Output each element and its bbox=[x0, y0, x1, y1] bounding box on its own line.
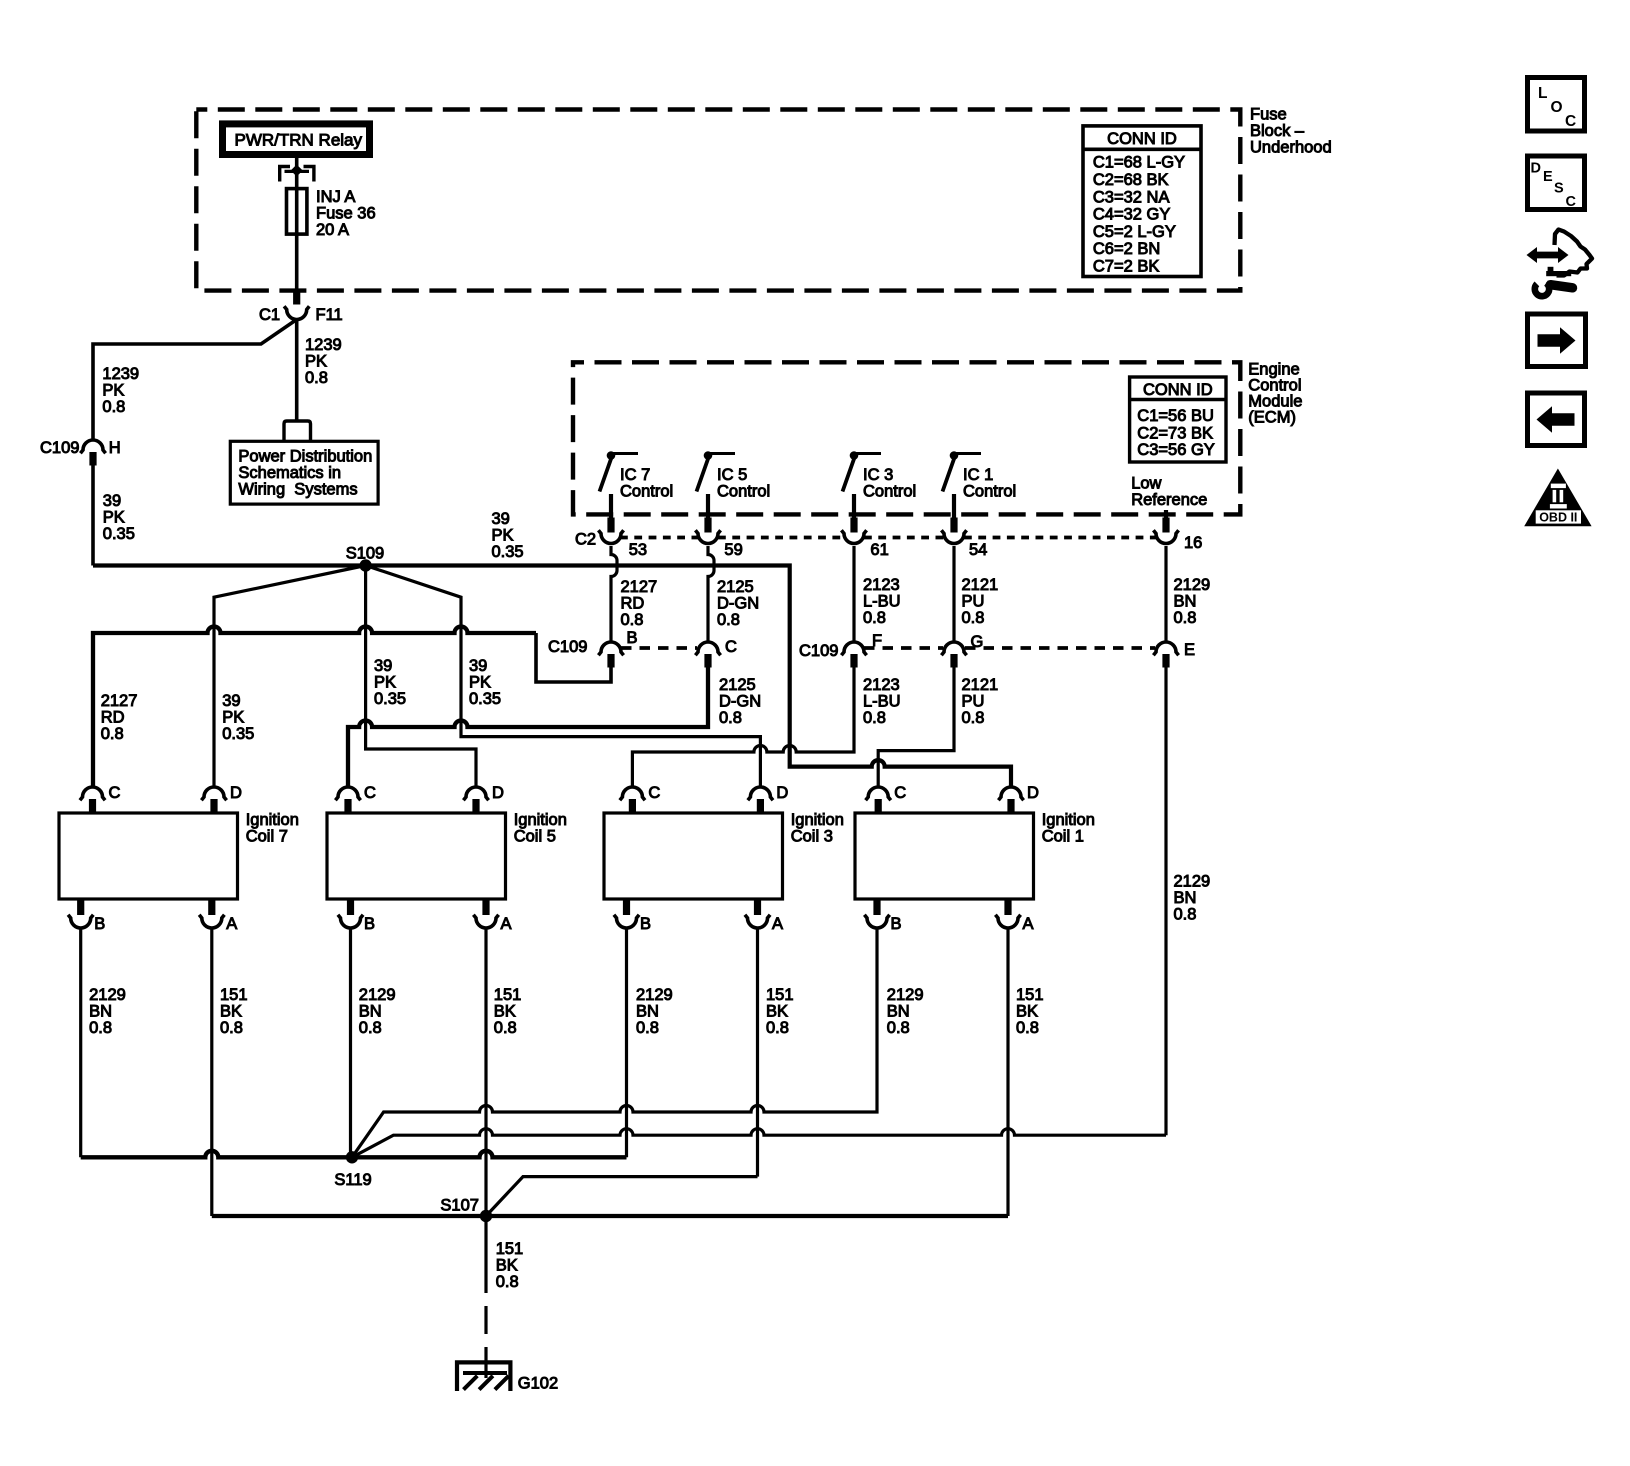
svg-text:0.8: 0.8 bbox=[494, 1019, 517, 1037]
coil 1 pin B bar bbox=[873, 899, 880, 915]
svg-text:C1=56 BU: C1=56 BU bbox=[1137, 407, 1214, 425]
svg-text:D: D bbox=[776, 784, 788, 802]
svg-text:C: C bbox=[1565, 113, 1576, 130]
svg-text:B: B bbox=[94, 915, 105, 933]
connector C2 pin 53 bar bbox=[607, 518, 614, 533]
off-page bracket bbox=[284, 421, 311, 441]
svg-text:0.8: 0.8 bbox=[496, 1273, 519, 1291]
fuse holder bar bbox=[285, 170, 310, 173]
svg-text:C2=68 BK: C2=68 BK bbox=[1093, 171, 1169, 189]
connector C109 cavity F bbox=[841, 642, 866, 655]
svg-text:D: D bbox=[492, 784, 504, 802]
svg-text:151: 151 bbox=[1016, 986, 1044, 1004]
svg-text:0.8: 0.8 bbox=[1174, 906, 1197, 924]
coil 7 pin C bar bbox=[89, 799, 96, 813]
wire 2129 BN coil3 B down bbox=[625, 928, 628, 1158]
coil 5 pin C bar bbox=[344, 799, 351, 813]
svg-text:2129: 2129 bbox=[887, 986, 924, 1004]
coil 3 pin C connector bbox=[620, 787, 645, 800]
coil 7 pin A connector bbox=[199, 915, 224, 928]
connector C2 pin 59 bar bbox=[704, 518, 711, 533]
wire low reference stub bbox=[1164, 510, 1168, 518]
svg-text:Power Distribution: Power Distribution bbox=[238, 448, 372, 466]
wire 151 BK S107 to ground solid bbox=[484, 1222, 487, 1293]
svg-text:H: H bbox=[109, 439, 121, 457]
icon DESC box bbox=[1528, 156, 1585, 210]
svg-text:C4=32 GY: C4=32 GY bbox=[1093, 206, 1171, 224]
wire 151 BK to ground symbol bbox=[484, 1347, 487, 1378]
svg-text:Ignition: Ignition bbox=[514, 811, 567, 829]
connector C109 pin E bar bbox=[1162, 654, 1169, 668]
svg-text:IC 1: IC 1 bbox=[963, 466, 993, 484]
svg-text:Ignition: Ignition bbox=[791, 811, 844, 829]
svg-text:2127: 2127 bbox=[101, 692, 138, 710]
connector C109 pin H bar bbox=[89, 452, 96, 466]
wire 2123 L-BU run to coil3 C bbox=[632, 668, 854, 789]
icon LOC box bbox=[1528, 78, 1585, 132]
svg-text:0.8: 0.8 bbox=[101, 725, 124, 743]
svg-text:E: E bbox=[1184, 641, 1195, 659]
wire 151 BK coil5 A down to S107 bbox=[484, 928, 487, 1217]
wire 39 PK main bus to coil1 D bbox=[93, 566, 1011, 789]
coil 5 pin A connector bbox=[473, 915, 498, 928]
coil 1 pin D bar bbox=[1007, 799, 1014, 813]
svg-text:BK: BK bbox=[494, 1003, 516, 1021]
wire 2123 L-BU pin 61 to C109 F bbox=[852, 546, 855, 643]
svg-text:CONN ID: CONN ID bbox=[1143, 381, 1213, 399]
svg-text:A: A bbox=[772, 915, 783, 933]
svg-text:C: C bbox=[894, 784, 906, 802]
coil 3 pin A bar bbox=[754, 899, 761, 915]
connector C2 cavity pin 61 bbox=[841, 530, 866, 543]
wire 151 BK coil1 A down bbox=[1006, 928, 1009, 1217]
svg-text:BN: BN bbox=[1174, 889, 1197, 907]
svg-text:C: C bbox=[1566, 194, 1577, 210]
connector C2 pin 54 bar bbox=[950, 518, 957, 533]
svg-text:D-GN: D-GN bbox=[719, 693, 761, 711]
svg-text:OBD II: OBD II bbox=[1539, 511, 1577, 525]
svg-text:0.8: 0.8 bbox=[863, 709, 886, 727]
connector C109 pin G bar bbox=[950, 654, 957, 668]
power distribution box bbox=[230, 441, 378, 504]
svg-text:G102: G102 bbox=[518, 1375, 558, 1393]
svg-text:0.8: 0.8 bbox=[717, 611, 740, 629]
svg-text:0.8: 0.8 bbox=[766, 1019, 789, 1037]
svg-text:2125: 2125 bbox=[719, 676, 756, 694]
svg-text:2129: 2129 bbox=[359, 986, 396, 1004]
wire 2125 D-GN run to coil5 C bbox=[348, 668, 708, 789]
svg-text:INJ A: INJ A bbox=[316, 188, 355, 206]
svg-text:Ignition: Ignition bbox=[1042, 811, 1095, 829]
coil 1 pin A bar bbox=[1004, 899, 1011, 915]
coil 5 pin B bar bbox=[347, 899, 354, 915]
coil 1 pin D connector bbox=[998, 787, 1023, 800]
wire 2127 RD below C109 B jog bbox=[536, 633, 611, 682]
svg-text:0.8: 0.8 bbox=[359, 1019, 382, 1037]
svg-text:2129: 2129 bbox=[1174, 576, 1211, 594]
svg-text:IC 5: IC 5 bbox=[717, 466, 747, 484]
svg-text:C: C bbox=[648, 784, 660, 802]
svg-text:2123: 2123 bbox=[863, 576, 900, 594]
driver switch IC 5 Control bbox=[708, 452, 735, 455]
wire 1239 PK to C109 H bbox=[93, 321, 295, 441]
svg-text:C7=2 BK: C7=2 BK bbox=[1093, 258, 1160, 276]
svg-text:Fuse 36: Fuse 36 bbox=[316, 205, 376, 223]
coil 7 pin A bar bbox=[208, 899, 215, 915]
svg-text:Fuse: Fuse bbox=[1250, 106, 1287, 124]
svg-text:Coil 3: Coil 3 bbox=[791, 828, 833, 846]
coil 1 pin C connector bbox=[866, 787, 891, 800]
wire 2129 BN coil7 B down bbox=[79, 928, 82, 1158]
icon forward arrow box bbox=[1528, 314, 1586, 367]
C109 dashed link B-C bbox=[621, 646, 697, 650]
svg-text:0.35: 0.35 bbox=[374, 690, 406, 708]
svg-text:BK: BK bbox=[496, 1257, 518, 1275]
wire 2127 RD pin 53 to C109 B (jog over bus) bbox=[611, 546, 617, 643]
svg-text:Schematics in: Schematics in bbox=[238, 464, 341, 482]
connector C109 cavity G bbox=[941, 642, 966, 655]
svg-text:39: 39 bbox=[374, 657, 392, 675]
coil 3 pin D connector bbox=[748, 787, 773, 800]
svg-text:RD: RD bbox=[621, 595, 645, 613]
svg-text:PK: PK bbox=[469, 674, 491, 692]
splice S109 bbox=[359, 559, 371, 571]
svg-text:0.8: 0.8 bbox=[887, 1019, 910, 1037]
wire 39 PK S109 to coil7 D bbox=[214, 566, 366, 789]
ignition coil 7 box bbox=[59, 813, 238, 899]
svg-text:IC 7: IC 7 bbox=[620, 466, 650, 484]
coil 3 pin B connector bbox=[614, 915, 639, 928]
svg-text:PWR/TRN Relay: PWR/TRN Relay bbox=[235, 131, 363, 150]
svg-text:Block –: Block – bbox=[1250, 122, 1305, 140]
svg-text:L: L bbox=[1538, 85, 1547, 102]
svg-text:C3=32 NA: C3=32 NA bbox=[1093, 188, 1170, 206]
svg-text:0.35: 0.35 bbox=[469, 690, 501, 708]
svg-text:S109: S109 bbox=[346, 545, 385, 563]
svg-text:0.8: 0.8 bbox=[305, 369, 328, 387]
svg-text:PK: PK bbox=[103, 509, 125, 527]
svg-text:CONN ID: CONN ID bbox=[1107, 130, 1177, 148]
CONN ID table ECM bbox=[1130, 377, 1226, 462]
connector C109 cavity B bbox=[598, 642, 623, 655]
driver switch IC 3 Control bbox=[854, 452, 881, 455]
svg-text:BN: BN bbox=[89, 1003, 112, 1021]
ignition coil 3 box bbox=[604, 813, 783, 899]
svg-text:2129: 2129 bbox=[1174, 873, 1211, 891]
svg-text:B: B bbox=[640, 915, 651, 933]
svg-text:BN: BN bbox=[1174, 593, 1197, 611]
svg-text:B: B bbox=[364, 915, 375, 933]
coil 5 pin D bar bbox=[472, 799, 479, 813]
svg-text:PK: PK bbox=[374, 674, 396, 692]
wire 151 BK bottom run S107 bbox=[212, 1214, 1008, 1218]
svg-text:20 A: 20 A bbox=[316, 221, 349, 239]
coil 3 pin D bar bbox=[757, 799, 764, 813]
wire 39 PK S109 to coil3 D bbox=[366, 566, 761, 789]
fuse block - underhood dashed box bbox=[196, 110, 1240, 291]
svg-text:C5=2 L-GY: C5=2 L-GY bbox=[1093, 223, 1176, 241]
svg-text:Control: Control bbox=[963, 483, 1016, 501]
coil 7 pin D connector bbox=[201, 787, 226, 800]
wire 151 BK coil3 A down bbox=[756, 928, 759, 1177]
svg-text:2129: 2129 bbox=[636, 986, 673, 1004]
connector C109 pin F bar bbox=[850, 654, 857, 668]
svg-text:151: 151 bbox=[766, 986, 794, 1004]
C109 dashed link G-E bbox=[965, 646, 1155, 650]
icon hand with wrench (checking/repair) bbox=[1527, 230, 1593, 297]
svg-text:F: F bbox=[872, 632, 882, 650]
C2 dashed link 61-54 bbox=[864, 536, 944, 540]
svg-text:PK: PK bbox=[492, 527, 514, 545]
svg-text:BK: BK bbox=[220, 1003, 242, 1021]
connector C2 cavity pin 53 bbox=[598, 530, 623, 543]
svg-text:PK: PK bbox=[222, 709, 244, 727]
svg-text:59: 59 bbox=[724, 541, 742, 559]
svg-text:D: D bbox=[230, 784, 242, 802]
icon OBD II warning triangle bbox=[1524, 469, 1591, 527]
svg-text:Control: Control bbox=[620, 483, 673, 501]
svg-text:Coil 1: Coil 1 bbox=[1042, 828, 1084, 846]
svg-text:53: 53 bbox=[629, 541, 647, 559]
svg-text:C2: C2 bbox=[575, 531, 596, 549]
wire 2129 BN S119 to C109 E riser bbox=[352, 1129, 1166, 1158]
wire 2129 BN S119 to coil1 B bbox=[352, 928, 877, 1158]
svg-text:151: 151 bbox=[496, 1240, 524, 1258]
svg-text:0.8: 0.8 bbox=[962, 609, 985, 627]
C2 dashed link 53-59 bbox=[620, 536, 698, 540]
svg-text:B: B bbox=[891, 915, 902, 933]
svg-text:2121: 2121 bbox=[962, 576, 999, 594]
icon back arrow box bbox=[1528, 393, 1585, 446]
svg-text:D: D bbox=[1027, 784, 1039, 802]
svg-text:C: C bbox=[109, 784, 121, 802]
svg-text:A: A bbox=[226, 915, 237, 933]
connector C1 cavity F11 bbox=[284, 306, 309, 319]
svg-text:BK: BK bbox=[766, 1003, 788, 1021]
CONN ID table fuse block bbox=[1083, 126, 1201, 277]
svg-text:BN: BN bbox=[359, 1003, 382, 1021]
svg-text:2125: 2125 bbox=[717, 578, 754, 596]
svg-text:0.8: 0.8 bbox=[621, 611, 644, 629]
svg-text:16: 16 bbox=[1184, 534, 1202, 552]
svg-text:C: C bbox=[364, 784, 376, 802]
svg-text:A: A bbox=[501, 915, 512, 933]
svg-text:61: 61 bbox=[870, 541, 888, 559]
svg-text:0.8: 0.8 bbox=[863, 609, 886, 627]
svg-text:F11: F11 bbox=[316, 306, 343, 324]
coil 5 pin A bar bbox=[482, 899, 489, 915]
svg-text:0.8: 0.8 bbox=[1174, 609, 1197, 627]
svg-text:2123: 2123 bbox=[863, 676, 900, 694]
svg-text:0.8: 0.8 bbox=[719, 709, 742, 727]
svg-text:0.35: 0.35 bbox=[103, 525, 135, 543]
svg-text:PU: PU bbox=[962, 693, 985, 711]
svg-text:IC 3: IC 3 bbox=[863, 466, 893, 484]
svg-text:2129: 2129 bbox=[89, 986, 126, 1004]
svg-text:BN: BN bbox=[887, 1003, 910, 1021]
wire 39 PK S109 to coil5 D bbox=[366, 566, 476, 789]
svg-text:O: O bbox=[1551, 99, 1563, 116]
wire 151 BK coil7 A down bbox=[210, 928, 213, 1217]
svg-text:39: 39 bbox=[469, 657, 487, 675]
coil 5 pin C connector bbox=[335, 787, 360, 800]
svg-text:Reference: Reference bbox=[1131, 491, 1207, 509]
fuse 36 body bbox=[287, 189, 307, 235]
svg-text:Low: Low bbox=[1131, 475, 1161, 493]
connector C109 pin C bar bbox=[704, 654, 711, 668]
svg-text:Underhood: Underhood bbox=[1250, 139, 1332, 157]
svg-text:D: D bbox=[1531, 161, 1541, 177]
engine control module ECM dashed box bbox=[573, 362, 1240, 514]
svg-text:Coil 5: Coil 5 bbox=[514, 828, 556, 846]
svg-text:BK: BK bbox=[1016, 1003, 1038, 1021]
driver switch IC 1 Control bbox=[954, 452, 981, 455]
wire 2129 BN pin 16 to C109 E bbox=[1164, 546, 1167, 643]
wire 2129 BN C109 E down to S119 net bbox=[1164, 668, 1167, 1136]
wire 1239 PK down to power distribution bbox=[295, 319, 299, 421]
svg-text:C1: C1 bbox=[259, 306, 280, 324]
svg-text:PU: PU bbox=[962, 593, 985, 611]
C2 dashed link 54-16 bbox=[964, 536, 1156, 540]
connector C109 cavity C bbox=[695, 642, 720, 655]
svg-text:C: C bbox=[725, 638, 737, 656]
svg-text:L-BU: L-BU bbox=[863, 593, 901, 611]
svg-text:S107: S107 bbox=[440, 1197, 479, 1215]
wire 2127 RD run to coil7 C bbox=[93, 627, 536, 788]
wire 2129 BN S119 to coil3 B riser bbox=[345, 1151, 627, 1157]
splice S107 bbox=[480, 1210, 492, 1222]
svg-text:0.8: 0.8 bbox=[220, 1019, 243, 1037]
svg-text:2127: 2127 bbox=[621, 578, 658, 596]
connector C2 cavity pin 16 bbox=[1153, 530, 1178, 543]
svg-text:0.8: 0.8 bbox=[1016, 1019, 1039, 1037]
wire 2121 PU pin 54 to C109 G bbox=[952, 546, 955, 643]
coil 7 pin D bar bbox=[210, 799, 217, 813]
svg-text:C109: C109 bbox=[548, 638, 587, 656]
C109 dashed link F-G bbox=[864, 646, 943, 650]
svg-text:A: A bbox=[1023, 915, 1034, 933]
svg-text:54: 54 bbox=[969, 541, 987, 559]
coil 3 pin A connector bbox=[745, 915, 770, 928]
svg-text:1239: 1239 bbox=[305, 336, 342, 354]
svg-text:C109: C109 bbox=[40, 439, 79, 457]
wire 2129 BN bottom run to S119 bbox=[81, 1151, 345, 1157]
connector C2 pin 16 bar bbox=[1162, 518, 1169, 533]
connector C2 pin 61 bar bbox=[850, 518, 857, 533]
svg-text:(ECM): (ECM) bbox=[1248, 409, 1296, 427]
svg-text:Control: Control bbox=[863, 483, 916, 501]
svg-text:Control: Control bbox=[717, 483, 770, 501]
svg-text:RD: RD bbox=[101, 709, 125, 727]
svg-text:PK: PK bbox=[102, 381, 124, 399]
coil 5 pin D connector bbox=[463, 787, 488, 800]
coil 3 pin B bar bbox=[623, 899, 630, 915]
connector C109 cavity E bbox=[1153, 642, 1178, 655]
svg-text:L-BU: L-BU bbox=[863, 693, 901, 711]
svg-text:Ignition: Ignition bbox=[246, 811, 299, 829]
svg-text:0.8: 0.8 bbox=[636, 1019, 659, 1037]
svg-text:D-GN: D-GN bbox=[717, 595, 759, 613]
svg-text:2121: 2121 bbox=[962, 676, 999, 694]
svg-text:E: E bbox=[1543, 169, 1553, 185]
wire 2125 D-GN pin 59 to C109 C (jog over bus) bbox=[708, 546, 714, 643]
wire 151 BK dashed segment bbox=[484, 1306, 487, 1334]
ignition coil 1 box bbox=[855, 813, 1034, 899]
wire relay to fuse 36 to C1 bbox=[295, 158, 299, 292]
relay PWR/TRN box bbox=[223, 124, 370, 155]
splice S119 bbox=[346, 1151, 358, 1163]
svg-text:0.8: 0.8 bbox=[89, 1019, 112, 1037]
svg-text:1239: 1239 bbox=[102, 365, 139, 383]
fuse junction diamond bbox=[291, 165, 303, 177]
connector C2 cavity pin 54 bbox=[941, 530, 966, 543]
coil 7 pin C connector bbox=[80, 787, 105, 800]
fuse holder clip right bbox=[304, 167, 314, 182]
coil 1 pin B connector bbox=[864, 915, 889, 928]
svg-text:C1=68 L-GY: C1=68 L-GY bbox=[1093, 154, 1185, 172]
wire 39 PK from C109 H to bus bbox=[91, 465, 95, 566]
svg-text:Wiring Systems: Wiring Systems bbox=[238, 481, 357, 499]
coil 1 pin C bar bbox=[875, 799, 882, 813]
svg-text:151: 151 bbox=[220, 986, 248, 1004]
svg-text:39: 39 bbox=[103, 492, 121, 510]
connector C1 pin bar bbox=[293, 292, 300, 305]
svg-text:BN: BN bbox=[636, 1003, 659, 1021]
svg-text:151: 151 bbox=[494, 986, 522, 1004]
svg-text:PK: PK bbox=[305, 353, 327, 371]
connector C2 cavity pin 59 bbox=[695, 530, 720, 543]
svg-text:Coil 7: Coil 7 bbox=[246, 828, 288, 846]
connector C109 cavity H bbox=[80, 440, 105, 453]
wire 2121 PU run to coil1 C bbox=[878, 668, 954, 789]
ignition coil 5 box bbox=[327, 813, 506, 899]
svg-text:39: 39 bbox=[492, 510, 510, 528]
fuse holder clip left bbox=[280, 167, 290, 182]
coil 1 pin A connector bbox=[995, 915, 1020, 928]
svg-text:0.35: 0.35 bbox=[492, 543, 524, 561]
svg-text:G: G bbox=[971, 633, 984, 651]
driver switch IC 7 Control bbox=[611, 452, 638, 455]
wire 2129 BN coil5 B down to S119 bbox=[349, 928, 352, 1158]
C2 dashed link 59-61 bbox=[718, 536, 844, 540]
coil 7 pin B bar bbox=[77, 899, 84, 915]
svg-text:C109: C109 bbox=[799, 642, 838, 660]
svg-text:39: 39 bbox=[222, 692, 240, 710]
svg-text:0.8: 0.8 bbox=[962, 709, 985, 727]
svg-text:C3=56 GY: C3=56 GY bbox=[1137, 441, 1215, 459]
svg-text:0.35: 0.35 bbox=[222, 725, 254, 743]
svg-text:S: S bbox=[1554, 181, 1564, 197]
coil 3 pin C bar bbox=[629, 799, 636, 813]
svg-text:C6=2 BN: C6=2 BN bbox=[1093, 240, 1160, 258]
coil 5 pin B connector bbox=[338, 915, 363, 928]
svg-text:0.8: 0.8 bbox=[102, 398, 125, 416]
coil 7 pin B connector bbox=[68, 915, 93, 928]
svg-text:B: B bbox=[627, 629, 638, 647]
svg-text:S119: S119 bbox=[334, 1171, 371, 1189]
wire 151 BK S107 diagonal to coil3 A bbox=[486, 1177, 758, 1216]
connector C109 pin B bar bbox=[607, 654, 614, 668]
ground G102 symbol bbox=[457, 1362, 510, 1391]
